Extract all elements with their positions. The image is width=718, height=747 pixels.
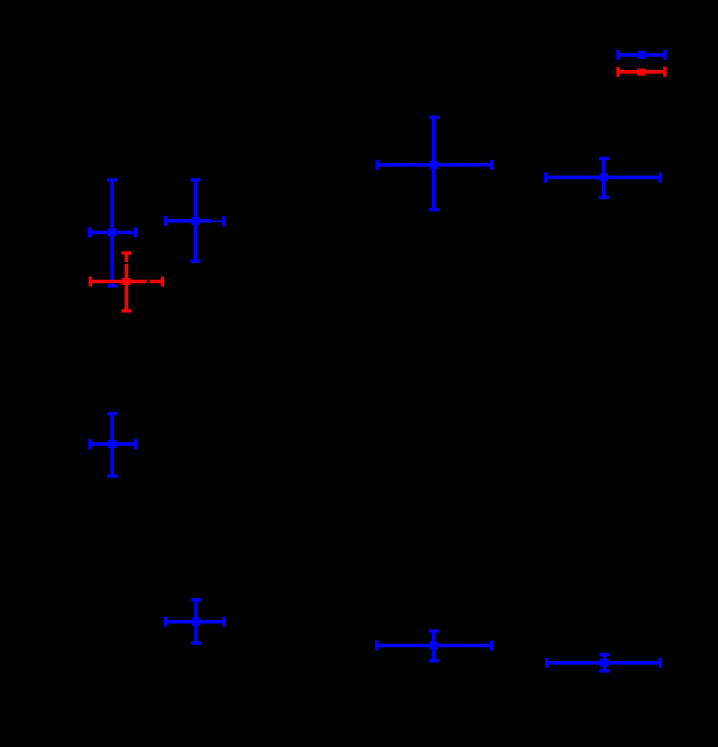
left cap (164, 216, 167, 226)
bottom cap (107, 474, 117, 477)
x error bar (377, 163, 491, 167)
square marker (192, 618, 201, 626)
bottom cap (429, 659, 439, 662)
square marker (108, 440, 117, 448)
bottom cap (599, 196, 609, 199)
bottom cap (107, 284, 117, 287)
square marker (191, 217, 200, 225)
right cap (134, 227, 137, 237)
left cap (544, 172, 547, 182)
left cap (616, 67, 619, 77)
bottom cap (191, 641, 201, 644)
left cap (88, 439, 91, 449)
x error bar thin continuation (210, 220, 223, 222)
right cap (222, 617, 225, 627)
y error bar (602, 158, 606, 197)
y error bar (432, 117, 436, 209)
right cap (134, 439, 137, 449)
y error bar (194, 600, 198, 643)
top cap (599, 653, 609, 656)
square marker (637, 69, 646, 76)
data point I (blue, x=604 bottom row) (547, 655, 661, 671)
square marker (122, 278, 131, 285)
left cap (545, 658, 548, 668)
data point C (red, x=126 top cluster) (90, 253, 162, 311)
left cap (89, 277, 92, 287)
top cap (107, 178, 117, 181)
legend entry 2: red sample bar (618, 67, 665, 77)
y error bar (602, 655, 606, 671)
top cap (599, 157, 609, 160)
square marker (600, 659, 609, 667)
y error bar (432, 631, 436, 661)
right cap (663, 67, 666, 77)
y error bar (dashed) (125, 253, 129, 262)
x error bar (166, 620, 225, 624)
data point B (blue, x=196 top cluster) (166, 180, 224, 261)
x error bar (90, 442, 135, 446)
y error bar (194, 180, 198, 261)
y error bar (110, 180, 114, 286)
top cap (429, 116, 439, 119)
top cap (121, 251, 131, 254)
left cap (616, 50, 619, 60)
right cap (161, 277, 164, 287)
bottom cap (121, 309, 131, 312)
top cap (107, 412, 117, 415)
left cap (88, 227, 91, 237)
x error bar (546, 176, 661, 180)
right cap (490, 641, 493, 651)
right cap (490, 160, 493, 170)
left cap (164, 617, 167, 627)
data point H (blue, x=434 bottom row) (377, 631, 492, 661)
right cap (659, 658, 662, 668)
data point F (blue, x=112 middle row) (90, 414, 135, 476)
data point G (blue, x=196 bottom row) (166, 600, 225, 643)
right cap (663, 50, 666, 60)
data point E (blue, x=604 top row) (546, 158, 661, 197)
x error bar (547, 661, 661, 665)
square marker (600, 173, 609, 181)
bottom cap (190, 259, 200, 262)
square marker (430, 161, 439, 169)
x error bar (thick part) (166, 219, 211, 223)
y error bar (110, 414, 114, 476)
square marker (108, 228, 117, 236)
data point D (blue, x=434 top row) (377, 117, 491, 209)
x error bar (dashed) (90, 280, 146, 284)
square marker (637, 51, 646, 59)
legend entry 1: blue sample bar (618, 50, 665, 60)
right cap (222, 216, 225, 226)
bottom cap (429, 208, 439, 211)
bottom cap (599, 669, 609, 672)
square marker (429, 642, 438, 650)
top cap (191, 598, 201, 601)
top cap (190, 178, 200, 181)
top cap (429, 629, 439, 632)
x error bar (377, 644, 492, 648)
left cap (375, 160, 378, 170)
left cap (375, 641, 378, 651)
right cap (659, 172, 662, 182)
x error bar (90, 231, 136, 235)
data point A (blue, x=112 top-left cluster) (90, 180, 136, 286)
